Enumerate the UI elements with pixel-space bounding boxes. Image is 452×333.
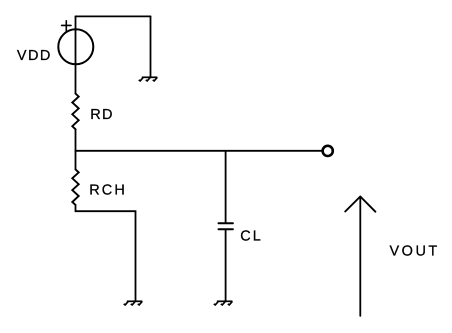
VOUT arrow line — [359, 197, 361, 316]
ground (top right) — [139, 77, 158, 81]
capacitor CL plates — [219, 223, 233, 229]
ground (bottom middle) — [214, 301, 233, 305]
wire RCH to ground (down, right, down) — [76, 205, 136, 300]
wire vertical through VDD source — [75, 16, 77, 93]
output terminal circle — [323, 146, 333, 156]
resistor RD — [72, 94, 78, 130]
svg-text:RD: RD — [90, 107, 114, 123]
VOUT arrowhead — [345, 197, 375, 212]
wire node to RCH — [75, 151, 77, 170]
wire node horizontal to output — [76, 150, 322, 152]
ground (bottom left) — [124, 301, 143, 305]
svg-text:CL: CL — [240, 228, 263, 244]
plus polarity mark — [62, 21, 71, 31]
voltage source VDD circle — [58, 29, 93, 64]
svg-text:VOUT: VOUT — [390, 244, 440, 260]
wire top horizontal from source top to right branch — [76, 15, 151, 17]
wire node to capacitor — [225, 151, 227, 223]
resistor RCH — [72, 169, 78, 205]
wire capacitor to ground — [225, 229, 227, 300]
svg-text:VDD: VDD — [17, 48, 52, 64]
svg-text:RCH: RCH — [89, 182, 127, 198]
wire RD to node — [75, 129, 77, 151]
wire right vertical to ground — [150, 16, 152, 76]
